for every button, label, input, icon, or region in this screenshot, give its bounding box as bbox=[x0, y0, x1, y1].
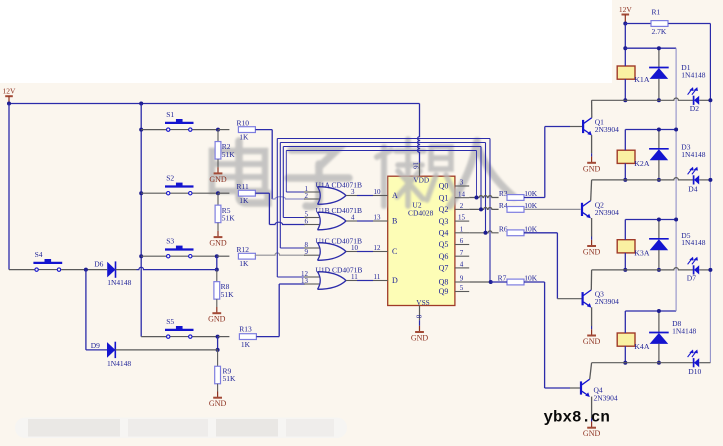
svg-text:GND: GND bbox=[209, 239, 227, 248]
svg-text:15: 15 bbox=[458, 214, 466, 222]
svg-text:Q2: Q2 bbox=[439, 205, 449, 214]
svg-text:K2A: K2A bbox=[634, 159, 650, 168]
svg-text:1N4148: 1N4148 bbox=[107, 278, 131, 287]
svg-text:GND: GND bbox=[583, 337, 601, 346]
svg-text:D7: D7 bbox=[687, 274, 696, 283]
svg-text:D9: D9 bbox=[91, 341, 100, 350]
svg-text:11: 11 bbox=[374, 273, 381, 281]
svg-text:S2: S2 bbox=[166, 174, 174, 183]
svg-text:51K: 51K bbox=[221, 290, 235, 299]
svg-text:VDD: VDD bbox=[413, 176, 429, 185]
svg-text:6: 6 bbox=[460, 237, 464, 245]
svg-text:4: 4 bbox=[460, 261, 464, 269]
svg-text:R1: R1 bbox=[652, 8, 661, 17]
svg-text:3: 3 bbox=[351, 188, 355, 196]
svg-text:D2: D2 bbox=[690, 104, 699, 113]
svg-text:13: 13 bbox=[374, 213, 382, 221]
svg-text:10K: 10K bbox=[524, 201, 538, 210]
svg-text:GND: GND bbox=[583, 248, 601, 257]
svg-text:R11: R11 bbox=[237, 182, 249, 191]
svg-text:CD4028: CD4028 bbox=[408, 209, 434, 218]
svg-text:Q9: Q9 bbox=[439, 287, 449, 296]
svg-text:51K: 51K bbox=[222, 213, 236, 222]
svg-text:GND: GND bbox=[583, 164, 601, 173]
svg-text:R12: R12 bbox=[237, 245, 250, 254]
svg-text:1: 1 bbox=[460, 225, 464, 233]
svg-text:2N3904: 2N3904 bbox=[594, 394, 618, 403]
svg-text:B: B bbox=[392, 217, 397, 226]
svg-text:2N3904: 2N3904 bbox=[595, 297, 619, 306]
svg-text:10K: 10K bbox=[524, 189, 538, 198]
svg-text:GND: GND bbox=[209, 399, 227, 408]
svg-text:10: 10 bbox=[351, 244, 359, 252]
svg-text:11: 11 bbox=[351, 273, 358, 281]
svg-text:9: 9 bbox=[460, 275, 464, 283]
svg-text:10K: 10K bbox=[524, 274, 538, 283]
svg-text:GND: GND bbox=[209, 175, 227, 184]
svg-text:10K: 10K bbox=[524, 224, 538, 233]
svg-text:1N4148: 1N4148 bbox=[681, 238, 705, 247]
svg-text:D10: D10 bbox=[688, 367, 701, 376]
svg-text:GND: GND bbox=[208, 315, 226, 324]
svg-text:D4: D4 bbox=[688, 185, 697, 194]
svg-text:U1B CD4071B: U1B CD4071B bbox=[316, 206, 362, 215]
svg-text:12V: 12V bbox=[3, 87, 17, 96]
svg-text:5: 5 bbox=[460, 284, 464, 292]
svg-text:R10: R10 bbox=[237, 118, 250, 127]
svg-text:1N4148: 1N4148 bbox=[681, 150, 705, 159]
svg-text:51K: 51K bbox=[223, 374, 237, 383]
svg-text:7: 7 bbox=[460, 249, 464, 257]
svg-text:3: 3 bbox=[460, 179, 464, 187]
svg-text:S5: S5 bbox=[166, 317, 174, 326]
svg-text:K3A: K3A bbox=[634, 249, 650, 258]
svg-text:Q3: Q3 bbox=[439, 217, 449, 226]
svg-text:51K: 51K bbox=[222, 150, 236, 159]
svg-text:A: A bbox=[392, 191, 398, 200]
svg-text:U1A CD4071B: U1A CD4071B bbox=[316, 181, 362, 190]
svg-text:Q8: Q8 bbox=[439, 278, 449, 287]
svg-text:8: 8 bbox=[415, 315, 423, 319]
svg-text:GND: GND bbox=[583, 429, 601, 438]
svg-text:1K: 1K bbox=[239, 133, 249, 142]
svg-text:R13: R13 bbox=[239, 324, 252, 333]
svg-text:VSS: VSS bbox=[416, 298, 429, 307]
svg-text:Q4: Q4 bbox=[439, 229, 449, 238]
svg-text:10: 10 bbox=[374, 188, 382, 196]
svg-text:12: 12 bbox=[374, 244, 382, 252]
svg-text:2N3904: 2N3904 bbox=[595, 125, 619, 134]
svg-text:1N4148: 1N4148 bbox=[672, 326, 696, 335]
svg-text:Q6: Q6 bbox=[439, 252, 449, 261]
svg-text:S3: S3 bbox=[166, 237, 174, 246]
svg-text:1K: 1K bbox=[239, 196, 249, 205]
svg-text:13: 13 bbox=[301, 277, 309, 285]
svg-text:ybx8.cn: ybx8.cn bbox=[544, 408, 610, 426]
svg-text:1N4148: 1N4148 bbox=[681, 70, 705, 79]
svg-text:16: 16 bbox=[412, 162, 420, 170]
svg-text:Q5: Q5 bbox=[439, 240, 449, 249]
svg-text:K4A: K4A bbox=[634, 342, 650, 351]
svg-text:Q0: Q0 bbox=[439, 182, 449, 191]
svg-text:2: 2 bbox=[460, 202, 464, 210]
svg-text:12V: 12V bbox=[619, 5, 633, 14]
svg-text:D: D bbox=[392, 276, 398, 285]
svg-text:6: 6 bbox=[305, 217, 309, 225]
svg-text:9: 9 bbox=[305, 248, 309, 256]
svg-text:1N4148: 1N4148 bbox=[107, 359, 131, 368]
svg-text:1K: 1K bbox=[239, 259, 249, 268]
svg-text:2N3904: 2N3904 bbox=[595, 208, 619, 217]
svg-text:2: 2 bbox=[305, 192, 309, 200]
svg-text:S1: S1 bbox=[166, 110, 174, 119]
svg-text:Q7: Q7 bbox=[439, 264, 449, 273]
svg-text:Q1: Q1 bbox=[439, 193, 449, 202]
svg-text:S4: S4 bbox=[35, 250, 43, 259]
svg-text:2.7K: 2.7K bbox=[652, 27, 667, 36]
svg-text:K1A: K1A bbox=[634, 75, 650, 84]
svg-text:GND: GND bbox=[411, 334, 429, 343]
svg-text:14: 14 bbox=[458, 190, 466, 198]
svg-text:1K: 1K bbox=[241, 340, 251, 349]
svg-text:R7: R7 bbox=[498, 274, 507, 283]
svg-text:D6: D6 bbox=[94, 259, 103, 268]
svg-text:C: C bbox=[392, 247, 397, 256]
svg-text:4: 4 bbox=[351, 213, 355, 221]
